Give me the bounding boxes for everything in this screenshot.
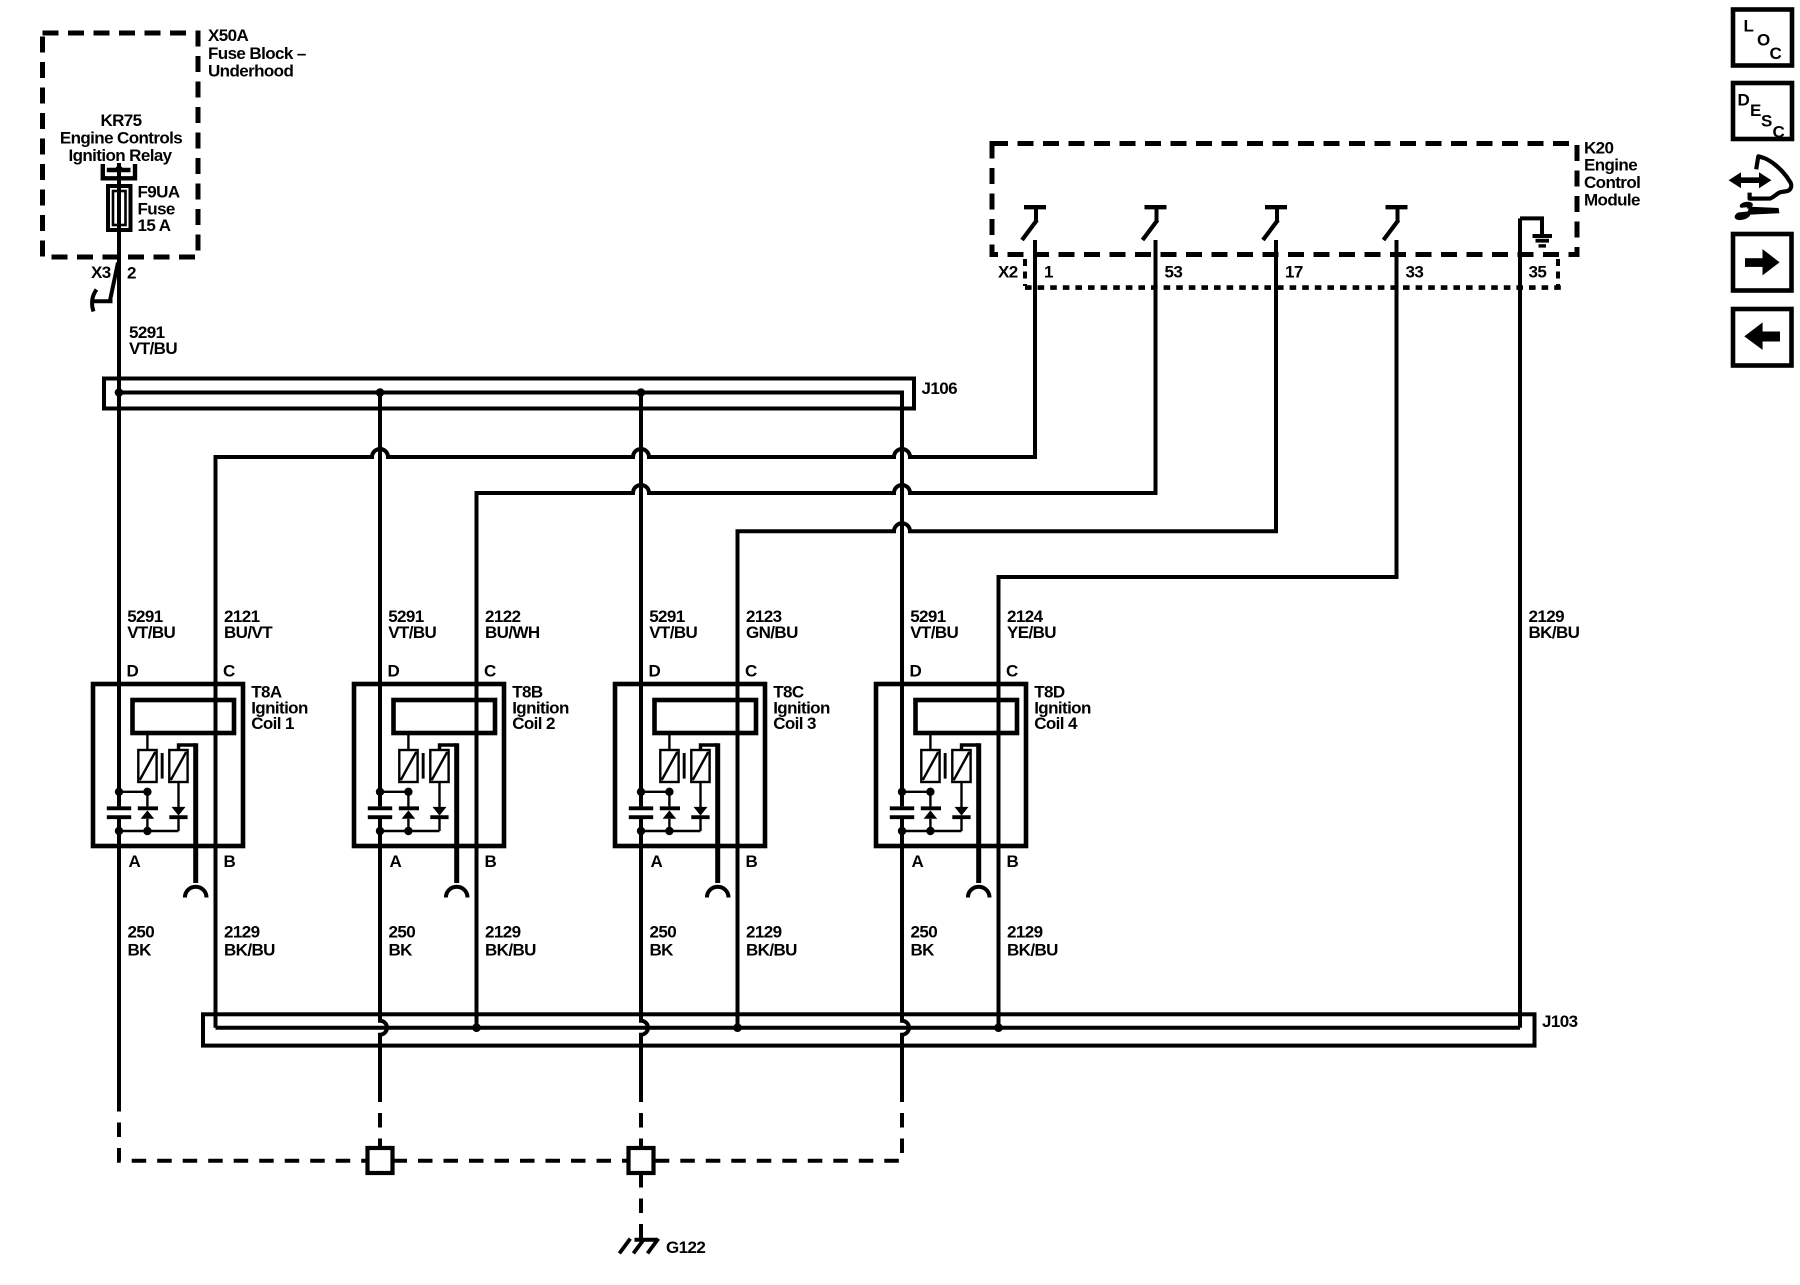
svg-text:D: D — [1738, 91, 1750, 110]
connector X3 symbol — [92, 263, 118, 312]
label T8D Ignition Coil 4 — [1034, 683, 1091, 733]
label 2129 BK/BU wire (ECM pin 35 ground) — [1529, 607, 1580, 642]
ECM K20 dashed box — [992, 144, 1577, 255]
wire 5291 tap to coil 3 — [639, 393, 643, 687]
wire 2129 BK/BU coil 2 pin B to J103 — [475, 846, 479, 1028]
label 5291 VT/BU wire (coil 1 pin D) — [127, 607, 175, 642]
pin letters coil 2 — [388, 661, 497, 871]
dashed ground wire from coil 1 pin A — [119, 1097, 368, 1161]
wire 5291 tap to coil 2 — [378, 393, 382, 687]
J103 internal bus wire — [216, 1026, 1521, 1030]
svg-text:C: C — [1770, 44, 1782, 63]
svg-text:K20: K20 — [1584, 138, 1614, 157]
svg-text:VT/BU: VT/BU — [129, 339, 177, 358]
svg-text:2: 2 — [127, 264, 136, 283]
pin letters coil 3 — [649, 661, 758, 871]
svg-text:BK: BK — [389, 940, 414, 959]
connector X3 pin 2 labels — [91, 263, 136, 283]
label T8B Ignition Coil 2 — [512, 683, 569, 733]
svg-text:B: B — [1007, 852, 1019, 871]
svg-text:VT/BU: VT/BU — [388, 623, 436, 642]
svg-text:1: 1 — [1044, 262, 1053, 281]
fuse block X50A dashed box — [43, 33, 199, 257]
svg-text:53: 53 — [1165, 262, 1183, 281]
svg-text:BK/BU: BK/BU — [224, 940, 275, 959]
svg-text:BK: BK — [128, 940, 153, 959]
ECM driver 3 — [1263, 207, 1287, 240]
svg-text:VT/BU: VT/BU — [910, 623, 958, 642]
svg-text:Coil 3: Coil 3 — [773, 714, 816, 733]
svg-text:J103: J103 — [1542, 1012, 1578, 1031]
ignition coil T8B (Ignition Coil 2) — [354, 684, 504, 898]
svg-text:2129: 2129 — [485, 923, 521, 942]
svg-text:Coil 1: Coil 1 — [251, 714, 294, 733]
label T8C Ignition Coil 3 — [773, 683, 830, 733]
svg-text:C: C — [745, 661, 757, 680]
icon diagnostic arrows — [1729, 172, 1772, 188]
svg-text:D: D — [388, 661, 400, 680]
svg-text:VT/BU: VT/BU — [127, 623, 175, 642]
J106 junction dots — [115, 388, 646, 397]
svg-text:BU/WH: BU/WH — [485, 623, 540, 642]
dashed ground wire from coil 3 pin A — [639, 1088, 643, 1149]
svg-text:E: E — [1750, 101, 1761, 120]
svg-text:J106: J106 — [922, 379, 958, 398]
label 250 BK (coil 4) — [911, 923, 938, 960]
svg-text:BK/BU: BK/BU — [746, 940, 797, 959]
wire 5291 VT/BU fuse to coil 1 (through J106) — [117, 163, 121, 686]
J106 internal bus wire — [117, 393, 902, 687]
label 5291 VT/BU wire (coil 2 pin D) — [388, 607, 436, 642]
svg-text:250: 250 — [650, 923, 677, 942]
svg-text:Ignition Relay: Ignition Relay — [68, 146, 172, 165]
svg-text:D: D — [910, 661, 922, 680]
label K20 Engine Control Module — [1584, 138, 1640, 209]
label 2122 BU/WH wire (coil 2 pin C) — [485, 607, 540, 642]
wire 250 BK coil 4 pin A (to ground splice) — [902, 846, 909, 1088]
label 5291 VT/BU wire (coil 3 pin D) — [649, 607, 697, 642]
label 250 BK (coil 1) — [128, 923, 155, 960]
svg-text:15 A: 15 A — [138, 216, 171, 235]
wire 2129 BK/BU coil 3 pin B to J103 — [736, 846, 740, 1028]
svg-text:BK: BK — [650, 940, 675, 959]
fuse F9UA 15 A — [108, 186, 131, 230]
svg-text:L: L — [1744, 17, 1754, 36]
wire 250 BK coil 2 pin A (to ground splice) — [380, 846, 387, 1088]
svg-text:A: A — [651, 852, 663, 871]
svg-text:Coil 2: Coil 2 — [512, 714, 555, 733]
label 2129 BK/BU (coil 4) — [1007, 923, 1058, 960]
ground G122 symbol — [619, 1239, 658, 1254]
dashed ground wire from coil 2 pin A — [378, 1088, 382, 1149]
svg-text:C: C — [223, 661, 235, 680]
label 2129 BK/BU (coil 2) — [485, 923, 536, 960]
wire 2129 BK/BU ECM pin 35 to J103 — [1518, 218, 1522, 1027]
icon button arrow right — [1733, 234, 1792, 291]
wire 250 BK coil 3 pin A (to ground splice) — [641, 846, 648, 1088]
svg-text:Engine: Engine — [1584, 156, 1637, 175]
svg-text:YE/BU: YE/BU — [1007, 623, 1056, 642]
svg-text:X3: X3 — [91, 263, 111, 282]
svg-text:Coil 4: Coil 4 — [1034, 714, 1078, 733]
wire 2129 BK/BU coil 4 pin B to J103 — [997, 846, 1001, 1028]
wire 2122 BU/WH ECM pin 53 to coil 2 pin C — [477, 240, 1156, 686]
svg-text:C: C — [484, 661, 496, 680]
svg-text:Engine Controls: Engine Controls — [60, 128, 182, 147]
ground splice S2 — [629, 1148, 654, 1173]
svg-text:A: A — [390, 852, 402, 871]
label 2124 YE/BU wire (coil 4 pin C) — [1007, 607, 1056, 642]
svg-text:B: B — [485, 852, 497, 871]
svg-text:Underhood: Underhood — [208, 62, 293, 81]
svg-text:35: 35 — [1529, 262, 1547, 281]
svg-text:GN/BU: GN/BU — [746, 623, 798, 642]
svg-text:2129: 2129 — [746, 923, 782, 942]
svg-text:Module: Module — [1584, 191, 1640, 210]
svg-text:C: C — [1006, 661, 1018, 680]
label 2123 GN/BU wire (coil 3 pin C) — [746, 607, 798, 642]
svg-text:33: 33 — [1406, 262, 1424, 281]
dashed ground wire from coil 4 pin A — [654, 1088, 903, 1161]
svg-text:C: C — [1773, 123, 1785, 142]
svg-text:BK/BU: BK/BU — [485, 940, 536, 959]
pin letters coil 4 — [910, 661, 1019, 871]
svg-text:17: 17 — [1285, 262, 1303, 281]
svg-text:250: 250 — [389, 923, 416, 942]
icon button arrow left — [1733, 309, 1792, 366]
wire 2124 YE/BU ECM pin 33 to coil 4 pin C — [999, 240, 1397, 686]
svg-text:G122: G122 — [666, 1238, 705, 1257]
svg-text:X50A: X50A — [208, 26, 248, 45]
svg-text:BK: BK — [911, 940, 936, 959]
svg-text:S: S — [1761, 112, 1772, 131]
svg-text:O: O — [1757, 31, 1770, 50]
label KR75 Engine Controls Ignition Relay — [60, 111, 182, 165]
svg-text:A: A — [912, 852, 924, 871]
label T8A Ignition Coil 1 — [251, 683, 308, 733]
label F9UA Fuse 15 A — [138, 182, 180, 235]
ground splice S1 — [368, 1148, 393, 1173]
svg-text:A: A — [129, 852, 141, 871]
icon diagnostic car outline — [1750, 156, 1792, 198]
wire 250 BK coil 1 pin A (to ground splice) — [117, 846, 121, 1097]
ignition coil T8D (Ignition Coil 4) — [876, 684, 1026, 898]
svg-text:VT/BU: VT/BU — [649, 623, 697, 642]
svg-text:KR75: KR75 — [100, 111, 141, 130]
svg-text:B: B — [224, 852, 236, 871]
wire 2129 BK/BU coil 1 pin B to J103 — [214, 846, 218, 1028]
svg-text:D: D — [649, 661, 661, 680]
svg-text:2129: 2129 — [1007, 923, 1043, 942]
J103 junction dots — [472, 1023, 1003, 1032]
label 2129 BK/BU (coil 1) — [224, 923, 275, 960]
label X50A Fuse Block - Underhood — [208, 26, 306, 80]
ECM internal ground symbol — [1520, 218, 1552, 246]
icon diagnostic wrench — [1734, 201, 1780, 222]
connector X2 dotted band — [1025, 259, 1562, 288]
svg-text:D: D — [127, 661, 139, 680]
wire 2121 BU/VT ECM pin 1 to coil 1 pin C — [216, 240, 1036, 686]
splice pack J106 box — [104, 379, 914, 409]
svg-text:250: 250 — [128, 923, 155, 942]
icon button DESC — [1733, 83, 1792, 142]
ECM driver 1 — [1022, 207, 1046, 240]
label 2129 BK/BU (coil 3) — [746, 923, 797, 960]
svg-text:2129: 2129 — [224, 923, 260, 942]
svg-text:Fuse Block –: Fuse Block – — [208, 44, 306, 63]
label 250 BK (coil 3) — [650, 923, 677, 960]
ECM driver 2 — [1143, 207, 1167, 240]
svg-text:Control: Control — [1584, 173, 1640, 192]
icon button LOC — [1733, 10, 1792, 66]
svg-text:BK/BU: BK/BU — [1007, 940, 1058, 959]
pin letters coil 1 — [127, 661, 236, 871]
ECM pin number labels — [1044, 262, 1546, 281]
svg-text:BU/VT: BU/VT — [224, 623, 273, 642]
svg-text:X2: X2 — [998, 262, 1018, 281]
ignition coil T8A (Ignition Coil 1) — [93, 684, 243, 898]
dashed ground rail segment S1-S2 — [393, 1159, 629, 1163]
dashed wire S2 to G122 — [639, 1173, 643, 1238]
svg-text:250: 250 — [911, 923, 938, 942]
label 5291 VT/BU feed — [129, 323, 177, 358]
label 5291 VT/BU wire (coil 4 pin D) — [910, 607, 958, 642]
svg-text:BK/BU: BK/BU — [1529, 623, 1580, 642]
label 2121 BU/VT wire (coil 1 pin C) — [224, 607, 273, 642]
label 250 BK (coil 2) — [389, 923, 416, 960]
wire 2123 GN/BU ECM pin 17 to coil 3 pin C — [738, 240, 1277, 686]
splice pack J103 box — [203, 1014, 1535, 1045]
ECM driver 4 — [1384, 207, 1408, 240]
svg-text:B: B — [746, 852, 758, 871]
ignition coil T8C (Ignition Coil 3) — [615, 684, 765, 898]
relay KR75 contact symbol — [103, 164, 135, 179]
